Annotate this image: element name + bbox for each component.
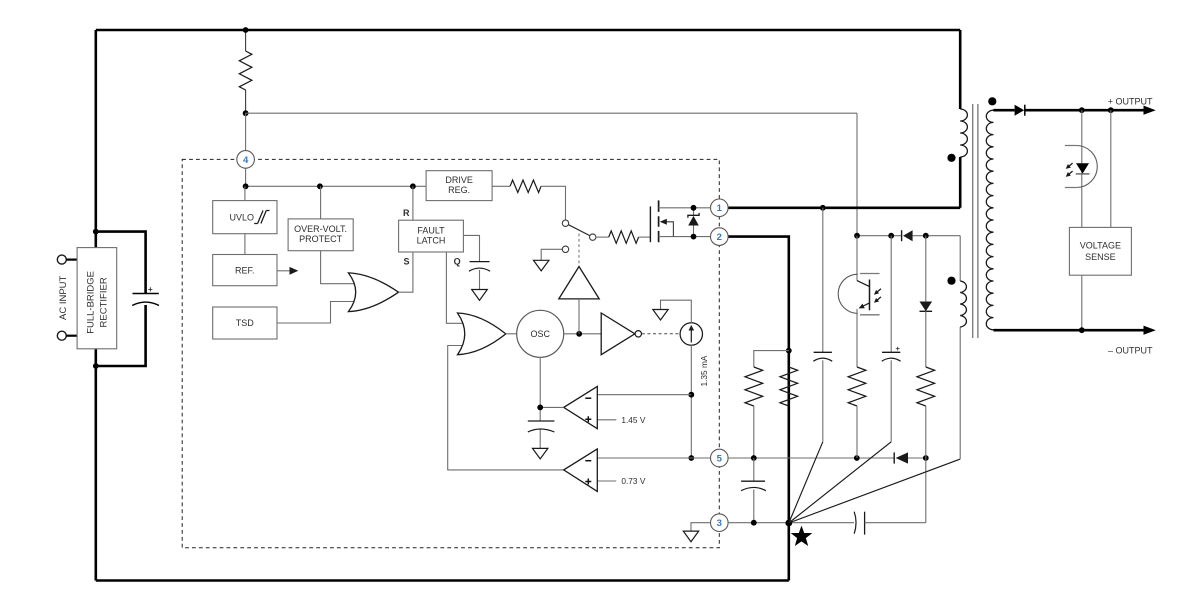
node: dot row235 x925.8 xyxy=(923,233,929,239)
AC input terminal 1 xyxy=(57,255,66,264)
svg-text:3: 3 xyxy=(717,518,722,529)
wire: comp1 plus stub xyxy=(597,419,616,421)
node: dot at top rail / resistor xyxy=(243,27,249,33)
wire: bias winding bottom lead xyxy=(959,327,961,459)
wire: gate resistor feed xyxy=(596,236,609,238)
ground G4 osc cap xyxy=(533,448,548,459)
buffer triangle right xyxy=(601,313,635,355)
wire: primary bottom lead thick xyxy=(959,157,962,208)
svg-text:REG.: REG. xyxy=(448,185,470,195)
svg-text:1.45 V: 1.45 V xyxy=(621,415,645,425)
capacitor C-en xyxy=(741,481,766,491)
node: dot +rail x1110.8 xyxy=(1108,107,1114,113)
UVLO block xyxy=(213,201,277,234)
wire: zener column riser xyxy=(925,458,927,523)
svg-text:FULL-BRIDGE: FULL-BRIDGE xyxy=(86,271,97,334)
svg-text:5: 5 xyxy=(717,453,723,464)
IC boundary dashed box xyxy=(182,159,719,547)
switch contact top xyxy=(562,220,568,226)
wire: UVLO to row xyxy=(244,186,246,200)
optocoupler LED xyxy=(1064,146,1097,188)
wire: top rail thick xyxy=(96,29,960,32)
wire: bias feed horizontal to right xyxy=(246,112,857,114)
+output arrowhead xyxy=(1144,106,1156,115)
wire: voltage sense to -rail xyxy=(1081,275,1083,330)
transformer T1 bias winding xyxy=(960,281,966,327)
wire: UVLO to REF xyxy=(244,234,246,255)
wire: cap between pin5 and pin3 rows xyxy=(753,458,755,523)
svg-text:0.73 V: 0.73 V xyxy=(621,476,645,486)
wire: hook below switch xyxy=(541,249,562,260)
svg-text:1.35 mA: 1.35 mA xyxy=(699,355,709,386)
node: dot row x319.9 xyxy=(317,183,323,189)
diode D-zener clamp xyxy=(920,302,933,368)
resistor R-opto vertical x857 xyxy=(848,367,866,406)
node: junction dot rectifier top xyxy=(93,229,99,235)
transformer core lines xyxy=(973,104,978,338)
svg-text:4: 4 xyxy=(243,155,249,166)
svg-text:S: S xyxy=(403,256,409,266)
svg-text:1: 1 xyxy=(717,203,723,214)
open contact below switch xyxy=(562,246,568,252)
transformer T1 primary thick lead top xyxy=(959,30,962,109)
OR gate U-or1 xyxy=(348,273,398,312)
pin 2 circle xyxy=(711,228,729,246)
amplifier triangle up xyxy=(559,267,599,299)
node: junction dot rectifier bottom xyxy=(93,363,99,369)
ground G1 below switch hook xyxy=(534,260,549,271)
node: dot comp1 minus junction xyxy=(688,392,694,398)
node: dot row x245 xyxy=(243,183,249,189)
svg-text:UVLO: UVLO xyxy=(230,212,255,222)
wire: comp1 minus input xyxy=(597,394,691,396)
switch lever xyxy=(566,223,593,237)
diode D-bias pointing left xyxy=(902,230,961,241)
pin 1 circle xyxy=(711,199,729,217)
svg-text:DRIVE: DRIVE xyxy=(445,175,473,185)
wire: comp2 output feedback xyxy=(448,346,564,470)
wire: LED column xyxy=(1081,110,1083,227)
wire: comp2 plus stub xyxy=(597,480,616,482)
node: dot comp2 minus junction xyxy=(688,455,694,461)
node: dot resistor bottom xyxy=(243,110,249,116)
wire: resistor down to pin5 row xyxy=(753,406,755,458)
resistor R-drive horizontal xyxy=(510,180,541,192)
pin 5 circle xyxy=(711,449,729,467)
fault latch block xyxy=(399,220,464,252)
wire: diagonal star to bias return xyxy=(789,459,960,523)
svg-text:OSC: OSC xyxy=(530,329,550,339)
wire: OR1 output to latch S xyxy=(399,252,413,292)
wire: C891 column lower xyxy=(890,360,892,442)
wire: comp1 out to OSC column xyxy=(540,406,564,408)
capacitor C-latch xyxy=(469,262,490,290)
svg-text:Q: Q xyxy=(454,257,461,267)
node: dot +rail x1081.8 xyxy=(1079,107,1085,113)
wire: bias feed vertical down at x857 xyxy=(856,113,858,236)
wire: C822 column upper xyxy=(822,208,824,352)
wire: pin2 thick down xyxy=(728,237,789,581)
svg-text:SENSE: SENSE xyxy=(1085,252,1116,262)
wire: pin3 ground hook xyxy=(691,523,711,531)
buffer inversion bubble xyxy=(635,331,641,337)
wire: secondary top out thick xyxy=(994,109,1015,112)
capacitor C-input polarized xyxy=(132,285,159,305)
ground G2 latch cap xyxy=(472,290,488,301)
svg-text:+: + xyxy=(148,285,153,294)
comparator comp1 xyxy=(564,386,598,428)
svg-text:REF.: REF. xyxy=(235,265,255,275)
svg-text:FAULT: FAULT xyxy=(417,226,445,236)
wire: latch Q down to OR2 xyxy=(446,252,464,323)
node: dot OSC out xyxy=(576,331,582,337)
svg-text:AC INPUT: AC INPUT xyxy=(58,275,69,320)
svg-text:PROTECT: PROTECT xyxy=(299,234,343,244)
current source 1.35 mA xyxy=(680,323,702,345)
wire: branch to left column xyxy=(754,351,789,367)
full-bridge rectifier block xyxy=(77,248,117,349)
over-volt protect block xyxy=(288,219,353,251)
wire: C822 column lower xyxy=(822,360,824,442)
wire: opto resistor to pin5 row xyxy=(856,406,858,458)
pin 4 circle xyxy=(237,151,255,169)
capacitor C-star horizontal xyxy=(854,512,926,535)
svg-text:VOLTAGE: VOLTAGE xyxy=(1080,240,1121,250)
node: dot pin1 line x822.8 xyxy=(820,205,826,211)
wire: zener column upper xyxy=(925,236,927,302)
diode D-en pointing left xyxy=(894,452,926,463)
switch contact right xyxy=(590,234,596,240)
node: dot pin5 row x753.8 xyxy=(751,455,757,461)
node: dot -rail x1081.8 xyxy=(1079,327,1085,333)
wire: right column xyxy=(1110,110,1112,227)
wire: bias winding top lead xyxy=(959,236,961,281)
node: dot sense branch xyxy=(786,348,792,354)
wire: terminal 1 stub xyxy=(66,259,77,261)
resistor R-sense on thick line xyxy=(780,367,798,406)
diode D-body zener xyxy=(688,208,699,237)
resistor R-gate horizontal xyxy=(609,231,639,243)
capacitor C-osc xyxy=(528,421,555,448)
wire: bottom rail thick xyxy=(96,579,789,582)
capacitor C891 polarized xyxy=(882,344,901,361)
dashed wire: bubble to current source xyxy=(642,333,680,335)
svg-text:OVER-VOLT.: OVER-VOLT. xyxy=(294,224,347,234)
resistor R-startup vertical at top xyxy=(239,32,252,113)
wire: pin3 row to star xyxy=(728,522,854,524)
svg-text:LATCH: LATCH xyxy=(417,236,446,246)
svg-text:RECTIFIER: RECTIFIER xyxy=(98,277,109,327)
dashed wire: lever to amp xyxy=(578,234,580,266)
wire: OR2 to OSC xyxy=(506,333,517,335)
wire: +output rail thick xyxy=(1025,109,1146,112)
node: dot comp1 out xyxy=(537,405,543,411)
optocoupler phototransistor xyxy=(838,236,882,367)
wire: REF output arrow xyxy=(277,267,298,275)
OR gate U-or2 xyxy=(458,313,506,355)
wire: current source top hook xyxy=(661,300,692,323)
wire: latch side cap feed xyxy=(463,235,479,261)
diode D-output xyxy=(1015,105,1025,116)
wire: OVP up to row xyxy=(320,186,322,219)
node: primary polarity dot xyxy=(947,154,955,162)
wire: OVP down to OR1 xyxy=(321,251,356,284)
ground G3 current source xyxy=(653,310,668,321)
wire: terminal 2 stub xyxy=(66,335,77,337)
wire: resistor to switch xyxy=(541,186,566,220)
svg-text:– OUTPUT: – OUTPUT xyxy=(1108,346,1153,356)
pin 3 circle xyxy=(711,514,729,532)
TSD block xyxy=(213,307,277,339)
wire: comp2 minus input to pin5 xyxy=(597,457,710,459)
svg-text:2: 2 xyxy=(717,232,722,243)
node: dot row235 x857 xyxy=(854,233,860,239)
node: dot pin5 row x856.8 xyxy=(854,455,860,461)
wire: C891 column upper xyxy=(890,236,892,353)
node: bias polarity dot xyxy=(947,277,955,285)
node: star junction dot xyxy=(785,520,792,527)
svg-text:+ OUTPUT: + OUTPUT xyxy=(1108,96,1153,106)
wire: bias rail row y235.7 xyxy=(857,235,902,237)
wire: drive reg out xyxy=(492,185,510,187)
transformer T1 primary winding xyxy=(960,109,967,157)
transformer T1 secondary winding xyxy=(986,110,993,330)
REF block xyxy=(213,255,277,286)
resistor R-bias vertical x925.8 xyxy=(917,367,935,406)
node: dot pin3 row x753.8 xyxy=(751,520,757,526)
-output arrowhead xyxy=(1144,326,1156,335)
voltage sense block xyxy=(1069,227,1131,275)
svg-text:R: R xyxy=(403,208,410,218)
wire: left rail thick xyxy=(95,30,98,581)
wire: diagonal star to C822 xyxy=(789,442,823,523)
comparator comp2 xyxy=(564,449,598,492)
oscillator OSC xyxy=(517,310,564,357)
svg-text:TSD: TSD xyxy=(236,318,255,328)
wire: bias resistor to pin5 row xyxy=(925,406,927,458)
wire: current source down xyxy=(690,345,692,458)
wire: OSC bottom column xyxy=(539,357,541,421)
transistor Q-mosfet xyxy=(650,200,710,242)
wire: pin5 row xyxy=(728,457,894,459)
wire: TSD out to OR1 xyxy=(277,302,356,324)
wire: -output rail thick xyxy=(994,329,1147,332)
wire: IC top row xyxy=(246,185,427,187)
resistor R-en vertical x753.8 xyxy=(745,367,763,406)
node: dot drain xyxy=(691,205,697,211)
node: dot pin5 row x925.8 xyxy=(923,455,929,461)
wire: amp down to OSC row xyxy=(578,299,580,334)
wire: drive reg feed from row xyxy=(425,185,427,187)
wire: input cap bottom branch thick xyxy=(96,305,146,366)
wire: latch R input xyxy=(412,186,414,220)
node: dot source xyxy=(691,234,697,240)
wire: pin1 thick to transformer xyxy=(728,207,960,210)
svg-text:+: + xyxy=(896,344,901,353)
wire: pin4 lead xyxy=(245,113,247,186)
AC input terminal 2 xyxy=(57,331,66,340)
wire: diagonal star to C891 xyxy=(789,442,891,523)
drive reg block xyxy=(426,171,492,201)
wire: OSC out to buffer xyxy=(564,333,602,335)
node: dot row235 x891.2 xyxy=(888,233,894,239)
ground G5 pin3 xyxy=(683,531,698,542)
star symbol xyxy=(792,527,811,545)
wire: input cap top branch thick xyxy=(96,232,146,294)
node: dot row x412.9 xyxy=(410,183,416,189)
wire: resistor to gate xyxy=(639,236,651,238)
capacitor C822 xyxy=(813,352,832,361)
node: secondary polarity dot xyxy=(988,97,996,105)
